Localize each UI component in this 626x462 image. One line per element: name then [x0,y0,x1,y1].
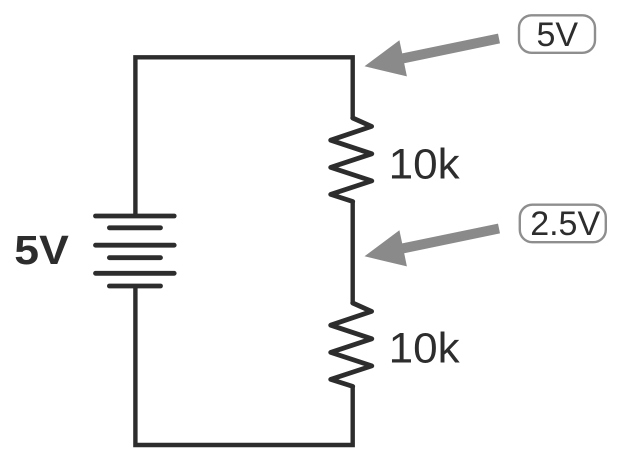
resistor R1 [331,118,372,202]
battery B1 plate short 2 [109,255,160,260]
callout box node label 5V [519,15,595,53]
callout box node label 2.5V [520,205,606,243]
battery B1 plate short 3 (-) [109,284,160,289]
svg-text:10k: 10k [389,325,460,372]
annotation arrow to node 5V [365,34,501,77]
battery B1 plate long 2 [96,243,175,248]
svg-text:10k: 10k [389,141,460,188]
svg-text:5V: 5V [14,228,69,274]
svg-text:5V: 5V [537,16,579,54]
battery B1 plate long 3 [96,271,175,276]
battery B1 plate short 1 [109,225,160,230]
svg-text:2.5V: 2.5V [530,205,600,243]
wire middle node between R1 and R2 [351,202,355,304]
battery B1 plate long 1 (+) [96,214,175,219]
annotation arrow to node 2.5V [365,224,501,267]
wire top-left loop: left vertical + top wire + right vertical to R1 [135,57,352,216]
resistor R2 [331,303,372,386]
wire bottom loop: right vertical + bottom wire + left vertical up to battery minus [135,286,352,445]
